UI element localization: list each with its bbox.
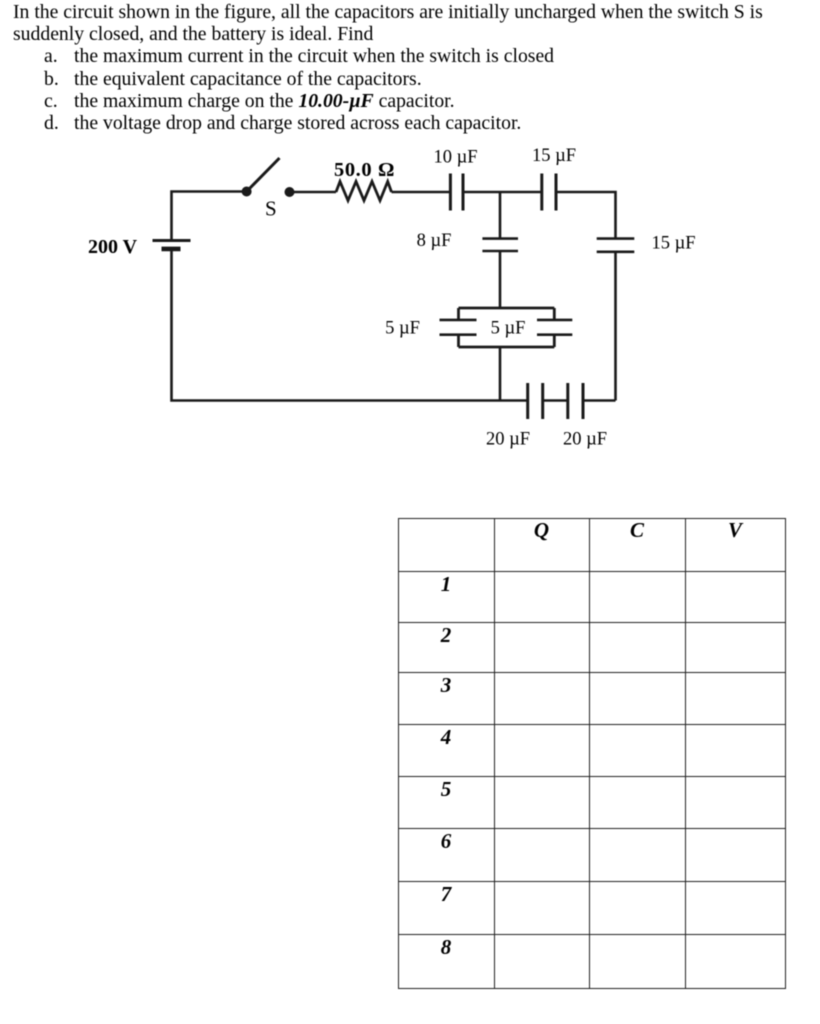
capacitor C20a 20uF plates	[528, 383, 543, 419]
parallel block bottom bar	[459, 346, 555, 349]
switch S contact dots	[242, 187, 295, 198]
label 15 uF right	[652, 234, 696, 254]
parallel block top bar	[459, 307, 555, 310]
capacitor C20b 20uF plates	[568, 383, 583, 419]
capacitor C15a 15uF top	[542, 174, 556, 211]
svg-text:15 µF: 15 µF	[532, 146, 576, 166]
svg-text:5 µF: 5 µF	[491, 319, 526, 339]
capacitor C5b 5uF right leads	[553, 308, 556, 347]
svg-text:20 µF: 20 µF	[486, 430, 530, 450]
capacitor C5b 5uF right plates	[537, 320, 572, 335]
battery V1 200 V negative plate	[162, 247, 181, 252]
label 20 uF right	[563, 430, 607, 450]
wire: C15b down right side to bottom	[614, 252, 617, 401]
svg-text:S: S	[265, 197, 277, 221]
label 15 uF top	[532, 146, 576, 166]
label 5 uF left	[385, 319, 420, 339]
wire: switch to resistor	[290, 191, 337, 194]
label 8 uF	[417, 231, 452, 251]
switch S arm (open)	[247, 158, 280, 192]
capacitor C15b 15uF right	[597, 239, 635, 252]
label 50.0 ohm	[334, 159, 395, 181]
wire: battery top to switch	[172, 192, 248, 241]
svg-text:10 µF: 10 µF	[433, 148, 477, 168]
svg-text:8 µF: 8 µF	[417, 231, 452, 251]
label 5 uF center	[491, 319, 526, 339]
wire: between C20a and C20b	[543, 399, 568, 402]
capacitor C5a 5uF left leads	[457, 308, 460, 347]
battery V1 200 V positive plate	[153, 239, 191, 242]
label 200 V	[88, 236, 138, 258]
resistor 50.0 ohm	[336, 182, 392, 201]
capacitor C10 10uF	[450, 174, 463, 211]
capacitor C8 8uF	[482, 239, 518, 251]
wire: resistor to C10	[392, 191, 450, 194]
wire: C15a to top-right corner	[556, 192, 616, 239]
label S	[265, 197, 277, 221]
label 10 uF	[433, 148, 477, 168]
svg-text:5 µF: 5 µF	[385, 319, 420, 339]
svg-text:20 µF: 20 µF	[563, 430, 607, 450]
svg-text:200 V: 200 V	[88, 236, 138, 258]
wire: C10 to C15a through node A	[463, 191, 541, 194]
wire: node A junction down to C8	[499, 192, 502, 239]
wire: C8 down to parallel block	[499, 251, 502, 308]
wire: parallel block down to bottom wire	[499, 347, 502, 401]
label 20 uF left	[486, 430, 530, 450]
capacitor C5a 5uF left plates	[440, 320, 477, 335]
svg-text:15 µF: 15 µF	[652, 234, 696, 254]
svg-text:50.0 Ω: 50.0 Ω	[334, 159, 395, 181]
wire: battery bottom to bottom-left corner	[172, 249, 528, 401]
wire: C20b to bottom-right corner	[583, 399, 616, 402]
